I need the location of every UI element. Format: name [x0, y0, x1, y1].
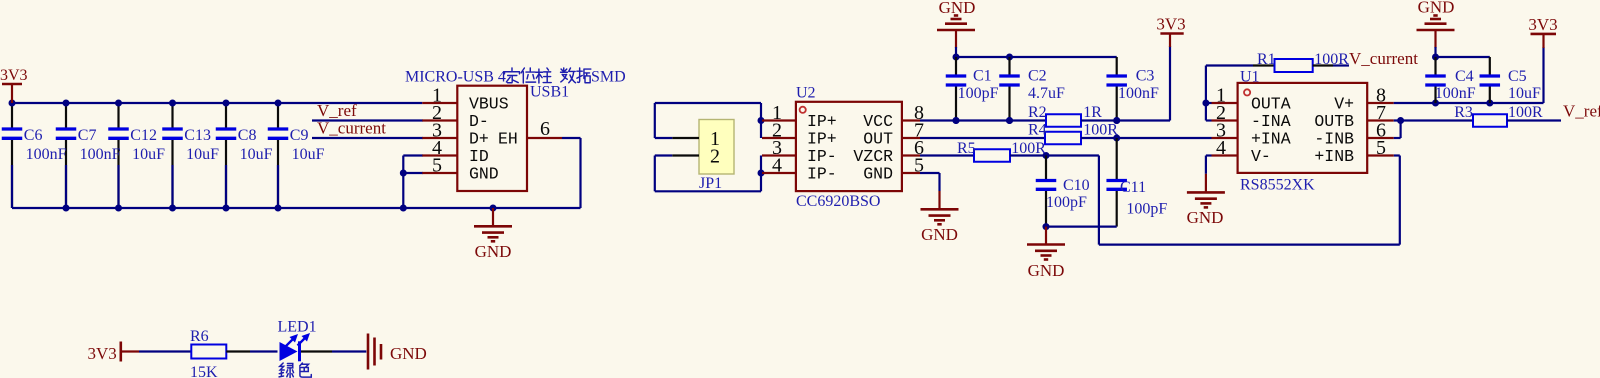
svg-text:V_ref: V_ref — [1563, 102, 1600, 121]
svg-text:USB1: USB1 — [530, 84, 569, 101]
svg-text:V_current: V_current — [317, 119, 386, 138]
svg-text:100nF: 100nF — [1435, 85, 1476, 102]
svg-text:4.7uF: 4.7uF — [1028, 85, 1065, 102]
svg-text:IP+: IP+ — [807, 112, 837, 131]
svg-text:+INB: +INB — [1314, 147, 1354, 166]
svg-text:R2: R2 — [1028, 104, 1047, 121]
svg-text:OUTA: OUTA — [1251, 95, 1291, 114]
svg-text:GND: GND — [1028, 261, 1065, 280]
svg-text:LED1: LED1 — [278, 319, 317, 336]
svg-text:5: 5 — [1376, 137, 1386, 159]
svg-text:10uF: 10uF — [292, 146, 325, 163]
svg-text:CC6920BSO: CC6920BSO — [796, 193, 880, 210]
svg-text:C1: C1 — [973, 68, 992, 85]
svg-text:C12: C12 — [130, 127, 157, 144]
svg-text:15K: 15K — [190, 364, 218, 378]
svg-text:100nF: 100nF — [26, 146, 67, 163]
svg-text:10uF: 10uF — [186, 146, 219, 163]
svg-text:R3: R3 — [1454, 104, 1473, 121]
svg-text:IP-: IP- — [807, 165, 837, 184]
svg-text:C4: C4 — [1455, 68, 1474, 85]
svg-text:100pF: 100pF — [1046, 194, 1087, 211]
svg-text:OUTB: OUTB — [1314, 112, 1354, 131]
svg-text:10uF: 10uF — [240, 146, 273, 163]
svg-text:D-: D- — [469, 112, 489, 131]
svg-text:R6: R6 — [190, 328, 209, 345]
svg-text:OUT: OUT — [863, 130, 893, 149]
svg-text:1R: 1R — [1083, 104, 1102, 121]
svg-text:C5: C5 — [1508, 68, 1527, 85]
svg-text:VBUS: VBUS — [469, 95, 509, 114]
svg-text:U1: U1 — [1240, 69, 1260, 86]
svg-text:VCC: VCC — [863, 112, 893, 131]
svg-text:3V3: 3V3 — [0, 67, 28, 84]
svg-text:RS8552XK: RS8552XK — [1240, 177, 1315, 194]
svg-text:100R: 100R — [1083, 122, 1118, 139]
svg-text:C7: C7 — [78, 127, 97, 144]
svg-text:100R: 100R — [1508, 104, 1543, 121]
svg-text:3V3: 3V3 — [1528, 15, 1557, 34]
svg-text:GND: GND — [863, 165, 893, 184]
svg-text:C9: C9 — [290, 127, 309, 144]
svg-text:-INA: -INA — [1251, 112, 1291, 131]
svg-text:IP+: IP+ — [807, 130, 837, 149]
svg-text:C10: C10 — [1063, 177, 1090, 194]
svg-text:C8: C8 — [238, 127, 257, 144]
svg-text:R1: R1 — [1257, 51, 1276, 68]
svg-text:100R: 100R — [1011, 140, 1046, 157]
svg-text:V_current: V_current — [1349, 49, 1418, 68]
svg-text:C6: C6 — [24, 127, 43, 144]
svg-text:SMD: SMD — [591, 69, 626, 86]
svg-text:V-: V- — [1251, 147, 1271, 166]
svg-text:5: 5 — [432, 155, 442, 177]
svg-text:100nF: 100nF — [1118, 85, 1159, 102]
svg-text:V_ref: V_ref — [317, 101, 357, 120]
svg-text:ID: ID — [469, 147, 489, 166]
svg-text:D+: D+ — [469, 130, 489, 149]
svg-text:VZCR: VZCR — [853, 147, 893, 166]
svg-text:C13: C13 — [184, 127, 211, 144]
svg-text:R4: R4 — [1028, 122, 1047, 139]
svg-text:GND: GND — [390, 344, 427, 363]
svg-text:4: 4 — [1216, 137, 1226, 159]
svg-text:100pF: 100pF — [958, 85, 999, 102]
svg-text:GND: GND — [1187, 208, 1224, 227]
svg-text:10uF: 10uF — [132, 146, 165, 163]
svg-text:GND: GND — [469, 165, 499, 184]
svg-text:EH: EH — [498, 130, 518, 149]
svg-text:6: 6 — [540, 118, 550, 140]
svg-text:R5: R5 — [957, 140, 976, 157]
svg-text:3V3: 3V3 — [1156, 15, 1185, 34]
svg-text:GND: GND — [939, 0, 976, 17]
svg-text:-INB: -INB — [1314, 130, 1354, 149]
svg-text:V+: V+ — [1334, 95, 1354, 114]
svg-text:IP-: IP- — [807, 147, 837, 166]
svg-text:JP1: JP1 — [699, 175, 722, 192]
svg-text:GND: GND — [1418, 0, 1455, 17]
svg-text:C11: C11 — [1120, 179, 1146, 196]
svg-text:GND: GND — [921, 225, 958, 244]
svg-text:U2: U2 — [796, 85, 816, 102]
svg-text:100nF: 100nF — [80, 146, 121, 163]
svg-text:100R: 100R — [1314, 51, 1349, 68]
svg-text:MICRO-USB 4: MICRO-USB 4 — [405, 69, 506, 86]
svg-text:100pF: 100pF — [1126, 201, 1167, 218]
svg-text:C2: C2 — [1028, 68, 1047, 85]
svg-text:2: 2 — [710, 146, 720, 168]
svg-text:4: 4 — [772, 155, 782, 177]
svg-text:C3: C3 — [1136, 68, 1155, 85]
svg-text:10uF: 10uF — [1508, 85, 1541, 102]
svg-text:GND: GND — [475, 242, 512, 261]
svg-text:3V3: 3V3 — [88, 344, 117, 363]
svg-text:+INA: +INA — [1251, 130, 1291, 149]
